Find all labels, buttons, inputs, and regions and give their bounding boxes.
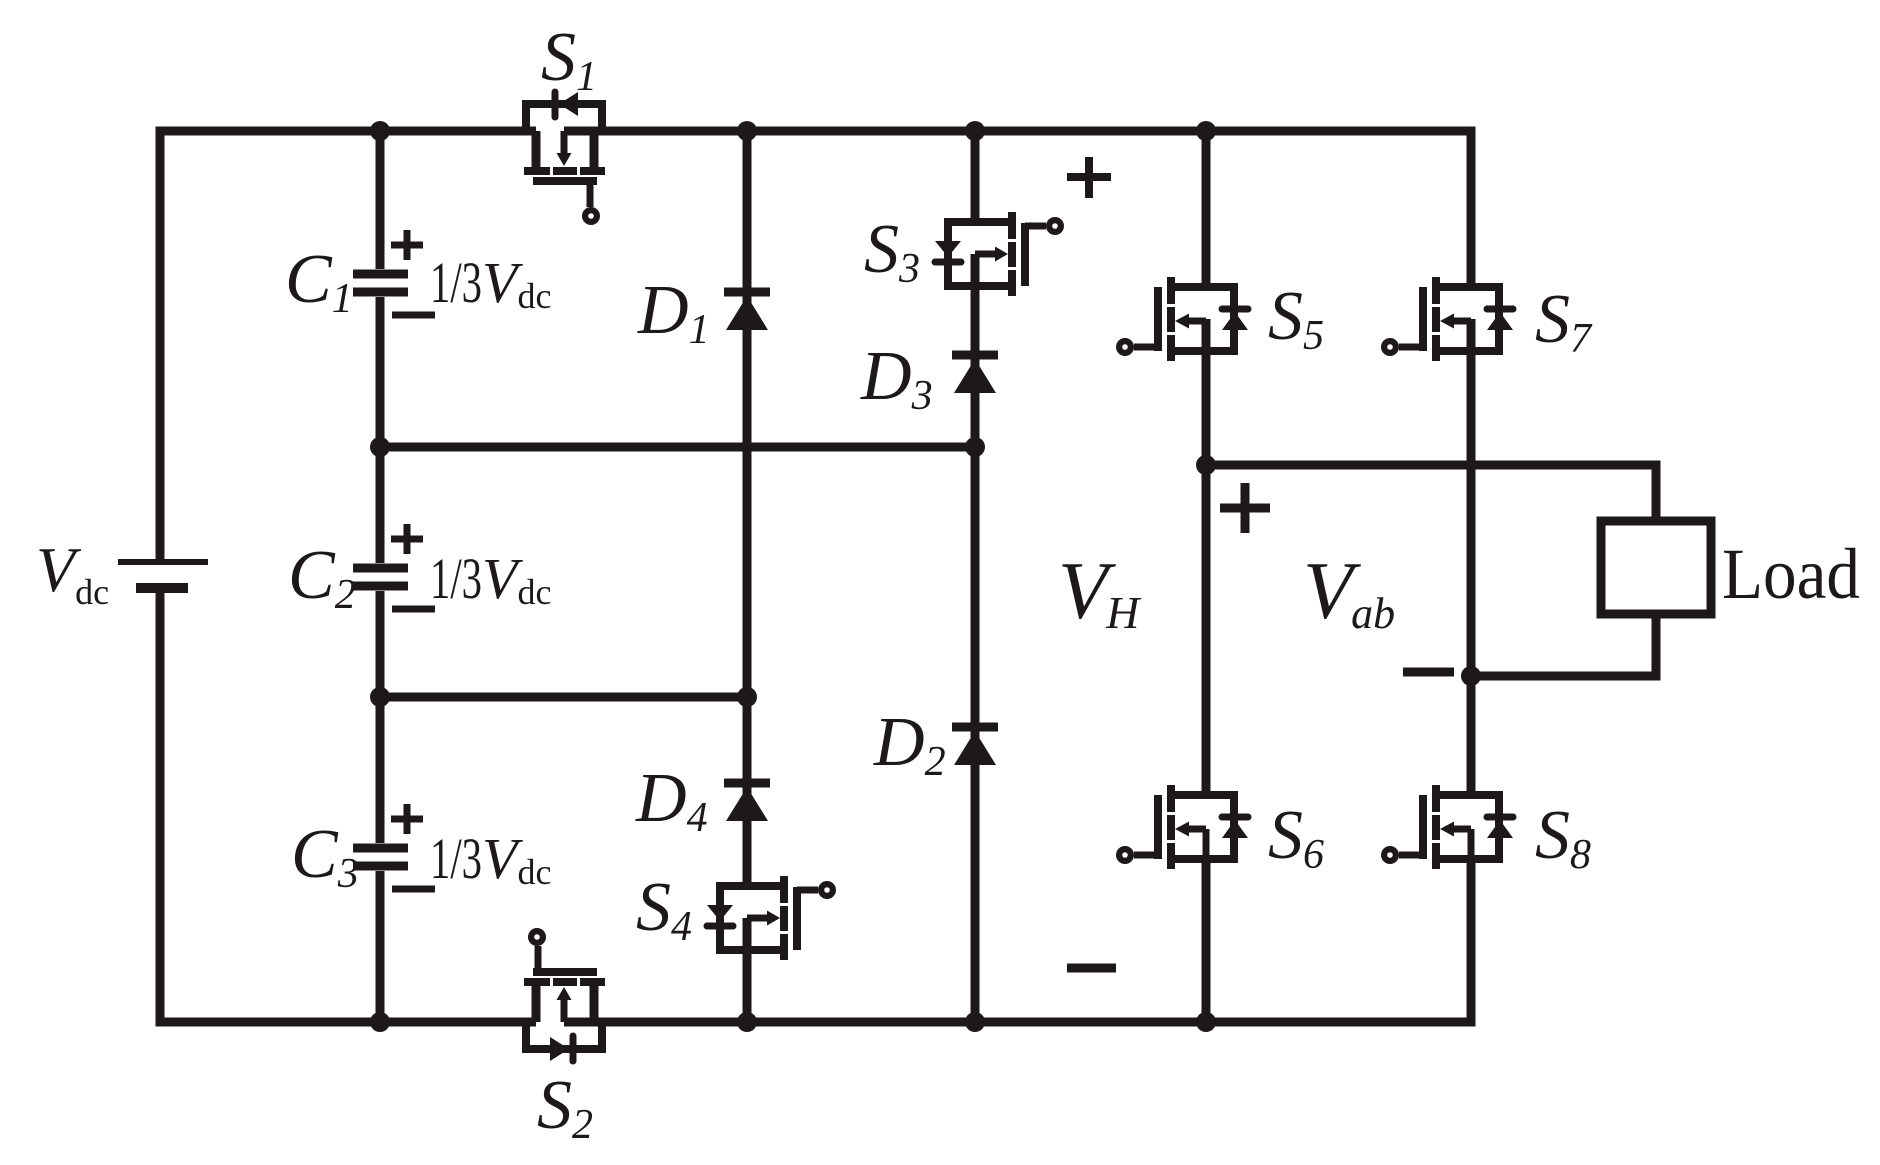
transistor S8 (MOSFET with body diode) xyxy=(1381,785,1513,869)
VH minus sign xyxy=(1067,964,1116,973)
Vab minus sign xyxy=(1403,668,1454,677)
node: top rail / middle column xyxy=(965,121,985,141)
node: top rail / clamp column xyxy=(737,121,757,141)
transistor S4 (MOSFET with body diode) xyxy=(707,876,836,960)
wire: S5 source to node a and S6 drain xyxy=(1202,319,1211,795)
C3 polarity plus sign xyxy=(391,804,423,834)
node: bottom rail / capacitor bus xyxy=(370,1012,390,1032)
diode D3 xyxy=(952,351,998,394)
node: clamp rail 2 at clamp column xyxy=(737,687,757,707)
wire: S4 source to bottom rail xyxy=(743,918,752,1022)
wire: S6 source to bottom rail xyxy=(1202,859,1211,1022)
battery Vdc negative short plate xyxy=(136,583,188,593)
battery Vdc positive long plate xyxy=(118,559,208,565)
wire: capacitor bus top rail to C1 top plate xyxy=(376,131,385,269)
node: top rail / capacitor bus xyxy=(370,121,390,141)
wire: S3 source through D3, D2 to bottom rail xyxy=(971,254,980,1022)
wire: left bus from battery - down to bottom rail corner xyxy=(160,589,536,1022)
node: bottom rail / H-bridge left column xyxy=(1196,1012,1216,1032)
Vab plus sign xyxy=(1220,483,1270,533)
diode D4 xyxy=(724,779,770,822)
wire: C2 bottom plate to C3 top plate xyxy=(376,591,385,843)
wire: clamp rail 2 (C2/C3 tap to D1/D4 junction) xyxy=(380,693,747,702)
node: clamp rail 1 at capacitor bus xyxy=(370,437,390,457)
wire: top rail left section with left bus corner down to battery + xyxy=(160,131,536,560)
C1 polarity plus sign xyxy=(391,230,423,260)
VH plus sign xyxy=(1067,157,1111,198)
transistor S3 (MOSFET with body diode) xyxy=(935,212,1064,296)
wire: H-bridge left column from top rail to S5 drain xyxy=(1202,131,1211,287)
diode D2 xyxy=(952,723,998,766)
svg-text:Load: Load xyxy=(1722,534,1860,614)
wire: middle column from top rail to S3 drain xyxy=(971,131,980,222)
diode D1 xyxy=(724,288,770,331)
C2 polarity minus sign xyxy=(392,606,435,613)
wire: top rail from S1 to top-right corner into S7 drain xyxy=(564,131,1471,287)
wire: clamp rail 1 (C1/C2 tap to D3/D2 junction) xyxy=(380,443,975,452)
C2 polarity plus sign xyxy=(391,524,423,554)
node: clamp rail 1 at middle column xyxy=(965,437,985,457)
transistor S1 (MOSFET with body diode) xyxy=(524,92,605,225)
node: bottom rail / middle column xyxy=(965,1012,985,1032)
transistor S7 (MOSFET with body diode) xyxy=(1381,277,1513,361)
node: bottom rail / clamp column xyxy=(737,1012,757,1032)
capacitor C1 plates xyxy=(353,274,408,292)
wire: S7 source to node b and S8 drain xyxy=(1467,319,1476,795)
wire: clamp column from top rail through D1, D4 to S4 drain xyxy=(743,131,752,886)
capacitor C2 plates xyxy=(353,568,408,586)
wire: node a to load top terminal xyxy=(1206,465,1656,521)
load resistor box xyxy=(1601,521,1711,614)
wire: C3 bottom plate to bottom rail xyxy=(376,871,385,1022)
transistor S6 (MOSFET with body diode) xyxy=(1116,785,1248,869)
capacitor C3 plates xyxy=(353,848,408,866)
transistor S5 (MOSFET with body diode) xyxy=(1116,277,1248,361)
node b: S7/S8 midpoint xyxy=(1461,666,1481,686)
node: top rail / H-bridge left column xyxy=(1196,121,1216,141)
node a: S5/S6 midpoint xyxy=(1196,455,1216,475)
C3 polarity minus sign xyxy=(392,886,435,893)
C1 polarity minus sign xyxy=(392,312,435,319)
wire: node b to load bottom terminal xyxy=(1471,614,1656,676)
transistor S2 (MOSFET with body diode) xyxy=(524,928,605,1061)
wire: C1 bottom plate to C2 top plate xyxy=(376,297,385,563)
node: clamp rail 2 at capacitor bus xyxy=(370,687,390,707)
wire: bottom rail from S2 to bottom-right corner up to S8 source xyxy=(564,859,1471,1022)
